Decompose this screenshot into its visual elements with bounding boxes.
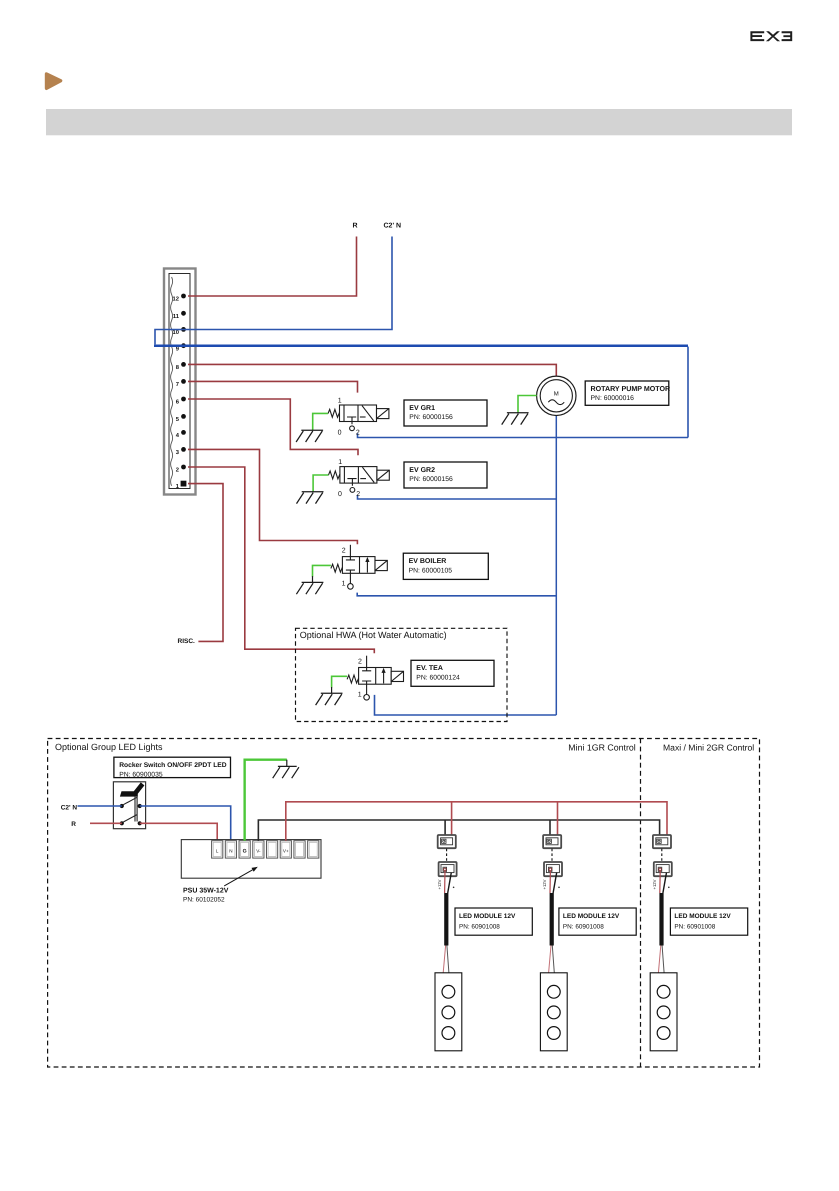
svg-text:ROTARY PUMP MOTOR: ROTARY PUMP MOTOR xyxy=(591,385,671,393)
svg-text:7: 7 xyxy=(176,382,179,388)
svg-text:N: N xyxy=(229,848,232,853)
svg-text:LED MODULE 12V: LED MODULE 12V xyxy=(674,913,731,920)
svg-text:PN: 60000124: PN: 60000124 xyxy=(416,675,460,682)
svg-text:EV GR2: EV GR2 xyxy=(409,467,435,474)
svg-text:L: L xyxy=(216,848,219,853)
svg-text:R: R xyxy=(353,223,358,230)
svg-text:2: 2 xyxy=(176,467,179,474)
svg-text:1: 1 xyxy=(338,397,342,404)
svg-text:EV. TEA: EV. TEA xyxy=(416,665,443,672)
svg-text:+12V: +12V xyxy=(437,879,442,889)
svg-text:Optional Group LED Lights: Optional Group LED Lights xyxy=(55,742,163,752)
svg-text:V+: V+ xyxy=(283,848,289,853)
svg-text:0: 0 xyxy=(338,491,342,498)
svg-text:2: 2 xyxy=(356,491,360,498)
svg-text:C2' N: C2' N xyxy=(384,223,402,230)
svg-text:LED MODULE 12V: LED MODULE 12V xyxy=(563,913,620,920)
svg-text:PN: 60000105: PN: 60000105 xyxy=(409,567,453,574)
svg-text:Maxi / Mini 2GR Control: Maxi / Mini 2GR Control xyxy=(663,743,754,753)
svg-text:+12V: +12V xyxy=(652,879,657,889)
svg-text:EV GR1: EV GR1 xyxy=(409,405,435,412)
svg-text:LED MODULE 12V: LED MODULE 12V xyxy=(459,913,516,920)
svg-text:0: 0 xyxy=(338,430,342,437)
svg-text:2: 2 xyxy=(356,430,360,437)
svg-text:RISC.: RISC. xyxy=(178,638,196,645)
svg-text:2: 2 xyxy=(342,548,346,555)
svg-text:PN: 60102052: PN: 60102052 xyxy=(183,897,225,904)
svg-text:PN: 60000016: PN: 60000016 xyxy=(591,395,635,402)
svg-text:2: 2 xyxy=(358,658,362,665)
svg-text:C2' N: C2' N xyxy=(61,804,78,811)
svg-text:1: 1 xyxy=(338,459,342,466)
svg-text:PN: 60900035: PN: 60900035 xyxy=(119,771,163,778)
svg-text:R: R xyxy=(71,821,76,828)
svg-text:PN: 60901008: PN: 60901008 xyxy=(563,923,604,930)
svg-text:Rocker Switch ON/OFF 2PDT LED: Rocker Switch ON/OFF 2PDT LED xyxy=(119,762,227,769)
svg-text:PN: 60000156: PN: 60000156 xyxy=(409,476,453,483)
svg-text:M: M xyxy=(554,390,559,397)
svg-text:V-: V- xyxy=(256,848,261,853)
svg-text:11: 11 xyxy=(173,314,180,320)
svg-text:Optional HWA (Hot Water Automa: Optional HWA (Hot Water Automatic) xyxy=(300,630,447,640)
svg-text:PSU 35W-12V: PSU 35W-12V xyxy=(183,888,229,895)
svg-text:Mini 1GR Control: Mini 1GR Control xyxy=(568,743,636,753)
svg-text:1: 1 xyxy=(358,692,362,699)
svg-text:G: G xyxy=(243,848,247,854)
svg-text:EV BOILER: EV BOILER xyxy=(409,558,447,565)
svg-text:PN: 60901008: PN: 60901008 xyxy=(674,923,715,930)
svg-text:1: 1 xyxy=(342,581,346,588)
svg-text:+12V: +12V xyxy=(542,879,547,889)
svg-text:PN: 60000156: PN: 60000156 xyxy=(409,414,453,421)
svg-text:PN: 60901008: PN: 60901008 xyxy=(459,923,500,930)
svg-text:12: 12 xyxy=(173,296,179,303)
